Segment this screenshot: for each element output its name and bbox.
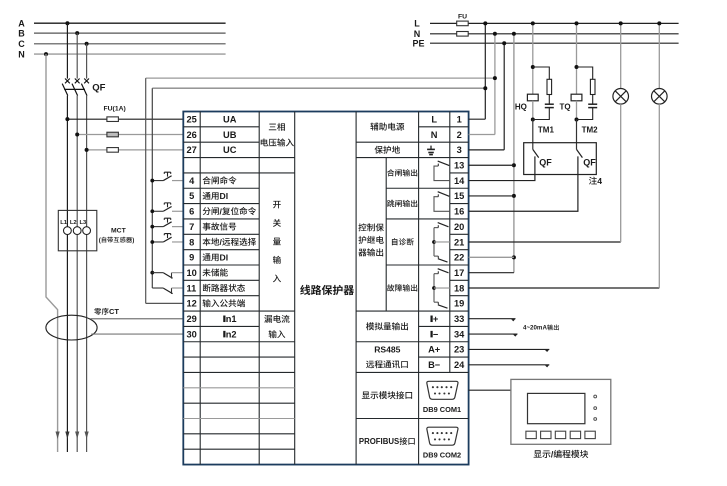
svg-text:L: L <box>414 19 420 29</box>
relay contact 合闸输出 (13-14) <box>434 161 450 181</box>
lamp HL1 <box>613 21 629 242</box>
right terminal rows <box>356 127 469 419</box>
pin A+ <box>428 345 441 355</box>
svg-text:C: C <box>18 39 25 49</box>
label RS485 远程通讯口 <box>366 344 408 368</box>
wire terminal 14 to QF aux <box>469 156 535 180</box>
svg-text:23: 23 <box>454 345 464 355</box>
svg-text:9: 9 <box>189 253 194 263</box>
wire neutral drop <box>46 54 58 452</box>
wire UB sense (to 26) <box>75 133 183 137</box>
fuse FU on N <box>457 32 469 37</box>
relay contact 跳闸输出 (15-16) <box>434 192 450 212</box>
pin 26 UB <box>223 130 237 140</box>
pin L <box>431 115 437 125</box>
wire analog I- (34) <box>469 333 518 337</box>
svg-text:−: − <box>433 329 439 339</box>
svg-text:MCT: MCT <box>111 227 127 234</box>
wire phase C drop (lower) <box>86 96 88 452</box>
label QF aux left <box>539 158 552 168</box>
label MCT type <box>99 237 135 244</box>
label 辅助电源 <box>370 123 404 131</box>
wire UA sense (to 25) <box>65 117 183 121</box>
svg-text:27: 27 <box>187 145 197 155</box>
pin I- <box>430 329 438 339</box>
switch contact 本地/远程 (8) <box>150 234 183 244</box>
svg-text:UA: UA <box>223 115 237 125</box>
fuse FU 25 <box>107 117 119 122</box>
wire terminal 15 <box>469 195 514 197</box>
pin 30 In2 <box>223 329 236 339</box>
node bus C tap <box>85 42 89 46</box>
svg-text:1: 1 <box>457 115 462 125</box>
switch contact 事故信号 (7) <box>150 218 183 228</box>
svg-text:A+: A+ <box>428 345 441 355</box>
svg-text:HQ: HQ <box>515 103 527 112</box>
device box 线路保护器 frame <box>183 112 468 465</box>
bus A <box>18 18 225 28</box>
wire L to terminal 1 <box>469 21 488 119</box>
svg-text:N: N <box>18 49 25 59</box>
fuse FU on L <box>457 21 469 26</box>
svg-text:20: 20 <box>454 222 464 232</box>
svg-text:TQ: TQ <box>560 103 571 112</box>
label 自诊断 <box>392 238 414 245</box>
svg-text:QF: QF <box>92 83 105 94</box>
svg-text:17: 17 <box>454 268 464 278</box>
label FU(1A) <box>104 105 126 112</box>
wire UC sense (to 27) <box>85 148 184 152</box>
relay contact 故障输出 (17-18-19) <box>432 269 450 309</box>
label 零序CT <box>94 307 119 316</box>
label L2 <box>70 220 77 226</box>
label 保护地 <box>375 146 400 154</box>
label 合闸输出 <box>387 169 417 176</box>
svg-text:14: 14 <box>454 176 465 186</box>
wire N to terminal 2 <box>469 32 497 135</box>
switch contact 断路器状态 (11) <box>152 288 183 294</box>
svg-text:25: 25 <box>187 115 197 125</box>
bus C <box>18 39 225 49</box>
bus PE <box>413 38 679 48</box>
svg-text:5: 5 <box>189 191 194 201</box>
node rail-22 <box>512 255 516 259</box>
label 注4 <box>589 176 602 186</box>
svg-text:4~20mA: 4~20mA <box>523 325 547 332</box>
wire terminal 17 <box>469 272 514 274</box>
label 显示/编程模块 <box>534 449 589 459</box>
switch contact 未储能 (10) <box>150 271 183 279</box>
node bus B tap <box>75 31 79 35</box>
label PROFIBUS接口 <box>359 437 415 446</box>
svg-text:L: L <box>431 115 437 125</box>
pin 29 In1 <box>223 314 236 324</box>
svg-text:DB9 COM2: DB9 COM2 <box>423 451 461 460</box>
svg-text:PE: PE <box>413 38 425 48</box>
svg-text:11: 11 <box>187 283 197 293</box>
feeder arrows <box>56 432 89 440</box>
svg-text:N: N <box>431 130 438 140</box>
wire terminal 16 to QF aux <box>469 156 578 211</box>
wire N relay rail <box>512 32 516 273</box>
svg-text:B−: B− <box>428 360 441 370</box>
svg-text:4: 4 <box>597 176 602 186</box>
svg-text:4: 4 <box>189 176 195 186</box>
lamp HL2 <box>652 21 668 288</box>
svg-text:CT: CT <box>109 307 119 316</box>
node rail-13 <box>512 163 516 167</box>
svg-text:13: 13 <box>454 161 464 171</box>
svg-text:21: 21 <box>454 237 464 247</box>
svg-text:19: 19 <box>454 299 464 309</box>
wire In1 (CT to 29) <box>91 318 184 320</box>
label 线路保护器 <box>300 285 354 295</box>
svg-text:L2: L2 <box>70 220 77 226</box>
svg-text:10: 10 <box>187 268 197 278</box>
label 模拟量输出 <box>366 322 408 330</box>
svg-text:24: 24 <box>454 360 465 370</box>
wire phase A drop (upper) <box>66 23 68 78</box>
svg-text:2: 2 <box>457 130 462 140</box>
label QF aux right <box>583 158 596 168</box>
switch contact 分闸/复位 (6) <box>150 203 183 213</box>
wire In2 (CT to 30) <box>91 333 183 335</box>
switch contact 合闸命令 (4) <box>150 172 183 182</box>
terminal numbers left <box>187 115 197 340</box>
svg-text:DI: DI <box>220 191 229 201</box>
svg-text:34: 34 <box>454 329 465 339</box>
label 跳闸输出 <box>387 200 417 207</box>
svg-text:12: 12 <box>187 299 197 309</box>
label 4~20mA输出 <box>523 324 559 331</box>
wire RS485 A+ (23) <box>469 348 550 352</box>
display module 显示/编程模块 <box>511 379 611 444</box>
left terminal rows <box>183 127 294 449</box>
CT 零序CT ellipse <box>46 315 97 340</box>
pin 27 UC <box>223 145 237 155</box>
coil TQ with RC (TM2) <box>560 21 599 157</box>
connector DB9 COM2 <box>423 427 461 459</box>
label L1 <box>60 220 68 226</box>
wire phase B drop (upper) <box>76 33 78 79</box>
label L3 <box>80 220 88 226</box>
svg-text:B: B <box>18 28 25 38</box>
wire phase A drop (lower) <box>66 96 68 452</box>
wire L contact rail <box>151 88 153 288</box>
label 控制保护继电器输出 <box>358 223 383 256</box>
wire phase C drop (upper) <box>86 44 88 79</box>
svg-text:n1: n1 <box>226 314 237 324</box>
svg-text:FU: FU <box>458 14 467 21</box>
svg-text:PROFIBUS: PROFIBUS <box>359 437 399 446</box>
label 开关量输入 <box>273 201 281 282</box>
svg-text:30: 30 <box>187 329 197 339</box>
svg-text:n2: n2 <box>226 329 237 339</box>
svg-text:+: + <box>433 314 439 324</box>
QF aux box <box>524 143 597 175</box>
svg-text:26: 26 <box>187 130 197 140</box>
label 故障输出 <box>387 284 417 291</box>
svg-text:DB9 COM1: DB9 COM1 <box>423 405 461 414</box>
bus B <box>18 28 225 38</box>
fuse FU 27 <box>107 148 119 153</box>
bus N right <box>414 29 679 39</box>
connector DB9 COM1 <box>423 381 461 414</box>
pin N <box>431 130 438 140</box>
svg-text:18: 18 <box>454 283 464 293</box>
label MCT <box>111 227 127 234</box>
wire input common (to 12) <box>146 302 184 304</box>
svg-text:33: 33 <box>454 314 464 324</box>
svg-text:UC: UC <box>223 145 237 155</box>
bus N <box>18 49 225 59</box>
svg-text:TM2: TM2 <box>582 126 599 135</box>
svg-text:7: 7 <box>189 222 194 232</box>
node bus N tap <box>44 52 48 56</box>
svg-text:L1: L1 <box>60 220 68 226</box>
svg-text:UB: UB <box>223 130 237 140</box>
svg-text:22: 22 <box>454 253 464 263</box>
svg-text:6: 6 <box>189 207 194 217</box>
ground 保护地 symbol <box>427 146 435 155</box>
node rail-15 <box>512 194 516 198</box>
wire RS485 B- (24) <box>469 364 550 368</box>
terminal numbers right <box>454 115 465 371</box>
wire terminal 21 to lamp 1 <box>469 241 621 243</box>
label 显示模块接口 <box>362 391 412 399</box>
pin I+ <box>430 314 438 324</box>
wire N feed horizontal <box>146 77 495 79</box>
label 漏电流输入 <box>264 315 289 338</box>
wire N common vertical <box>145 78 147 303</box>
svg-text:QF: QF <box>583 158 596 168</box>
transformer MCT windings <box>64 227 91 235</box>
left input names <box>203 176 257 307</box>
wire L feed horizontal <box>152 87 485 89</box>
svg-text:29: 29 <box>187 314 197 324</box>
fuse FU 26 <box>107 132 119 137</box>
svg-text:3: 3 <box>457 145 462 155</box>
node bus A tap <box>65 21 69 25</box>
svg-text:15: 15 <box>454 191 464 201</box>
coil HQ with RC (TM1) <box>515 21 555 157</box>
wire display module link <box>469 389 511 391</box>
svg-text:FU(1A): FU(1A) <box>104 105 126 112</box>
svg-text:TM1: TM1 <box>538 126 555 135</box>
svg-text:RS485: RS485 <box>374 344 400 354</box>
wire terminal 22 <box>469 256 514 258</box>
svg-text:DI: DI <box>220 252 229 262</box>
svg-text:8: 8 <box>189 237 194 247</box>
svg-text:16: 16 <box>454 207 464 217</box>
relay contact 自诊断 (20-21-22) <box>432 223 450 263</box>
svg-text:): ) <box>132 237 134 244</box>
wire PE to terminal 3 <box>469 41 507 150</box>
transformer MCT box <box>58 210 97 250</box>
breaker QF (3-pole) <box>62 79 105 96</box>
svg-text:L3: L3 <box>80 220 88 226</box>
wire analog I+ (33) <box>469 318 516 322</box>
wire terminal 13 <box>469 164 514 166</box>
bus L <box>414 19 678 29</box>
wire terminal 18 to lamp 2 <box>469 287 660 289</box>
pin B- <box>428 360 441 370</box>
svg-text:QF: QF <box>539 158 552 168</box>
wire phase B drop (lower) <box>76 96 78 452</box>
label 三相电压输入 <box>261 123 294 147</box>
svg-text:A: A <box>18 18 25 28</box>
pin 25 UA <box>223 115 237 125</box>
label FU <box>458 14 467 21</box>
